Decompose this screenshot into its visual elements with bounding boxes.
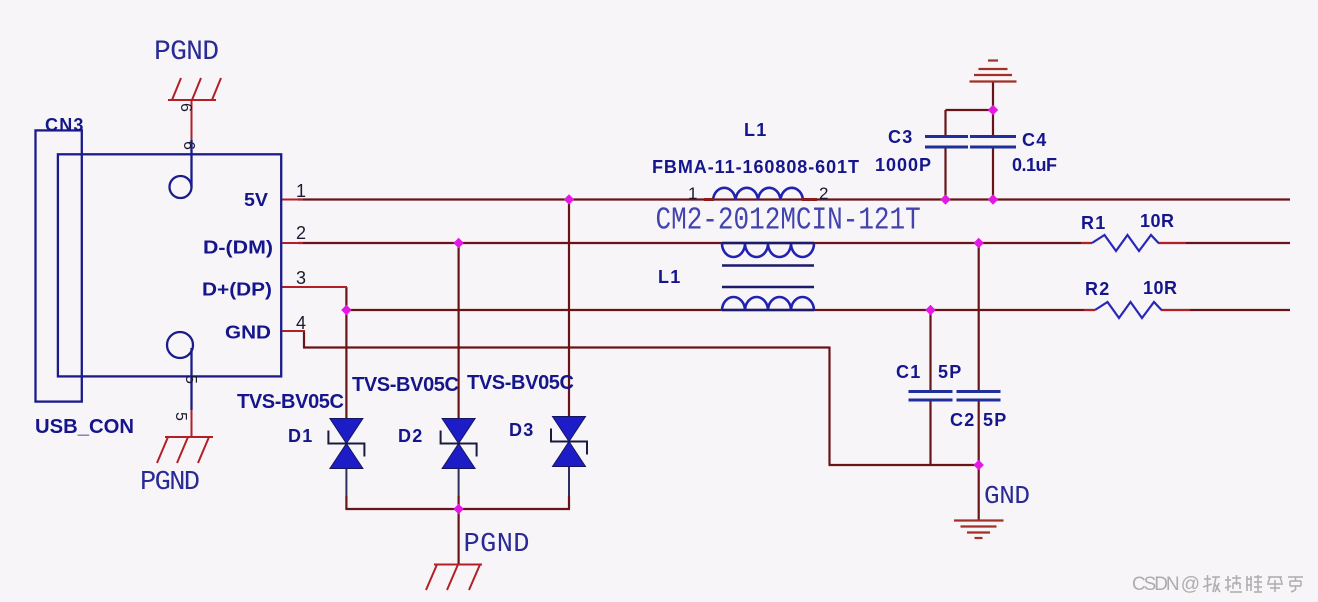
svg-text:1: 1 xyxy=(688,184,697,203)
svg-text:4: 4 xyxy=(296,313,306,333)
svg-text:D+(DP): D+(DP) xyxy=(202,280,272,300)
svg-text:C3: C3 xyxy=(888,127,913,147)
svg-text:6: 6 xyxy=(177,103,194,112)
svg-text:0.1uF: 0.1uF xyxy=(1012,155,1057,175)
svg-text:PGND: PGND xyxy=(154,37,219,68)
svg-text:TVS-BV05C: TVS-BV05C xyxy=(467,372,574,394)
svg-text:PGND: PGND xyxy=(140,468,200,498)
svg-text:1000P: 1000P xyxy=(875,155,931,175)
svg-text:5: 5 xyxy=(182,375,199,384)
svg-text:D-(DM): D-(DM) xyxy=(203,238,273,258)
svg-text:5V: 5V xyxy=(244,190,268,210)
svg-text:USB_CON: USB_CON xyxy=(35,416,134,438)
svg-text:GND: GND xyxy=(225,323,271,343)
svg-text:2: 2 xyxy=(819,184,828,203)
svg-text:C1: C1 xyxy=(896,362,921,382)
svg-text:R1: R1 xyxy=(1081,213,1106,233)
svg-text:CM2-2012MCIN-121T: CM2-2012MCIN-121T xyxy=(656,202,921,238)
svg-text:CSDN @: CSDN @ xyxy=(1132,574,1200,595)
svg-text:6: 6 xyxy=(180,141,197,150)
svg-text:10R: 10R xyxy=(1140,211,1174,231)
svg-text:2: 2 xyxy=(296,223,306,243)
svg-text:FBMA-11-160808-601T: FBMA-11-160808-601T xyxy=(652,157,859,177)
svg-text:C4: C4 xyxy=(1022,130,1047,150)
svg-text:D3: D3 xyxy=(509,420,534,440)
svg-text:L1: L1 xyxy=(744,120,767,140)
svg-text:10R: 10R xyxy=(1143,278,1177,298)
svg-text:5P: 5P xyxy=(938,362,962,382)
svg-text:TVS-BV05C: TVS-BV05C xyxy=(237,391,344,413)
svg-text:1: 1 xyxy=(296,181,306,201)
svg-text:R2: R2 xyxy=(1085,279,1110,299)
svg-text:GND: GND xyxy=(984,481,1030,511)
svg-text:5: 5 xyxy=(172,412,189,421)
svg-text:L1: L1 xyxy=(658,267,681,287)
svg-text:5P: 5P xyxy=(983,410,1007,430)
svg-text:D2: D2 xyxy=(398,426,423,446)
svg-text:3: 3 xyxy=(296,268,306,288)
svg-text:C2: C2 xyxy=(950,410,975,430)
svg-text:CN3: CN3 xyxy=(45,115,85,135)
svg-text:TVS-BV05C: TVS-BV05C xyxy=(352,374,459,396)
svg-text:PGND: PGND xyxy=(464,530,530,560)
svg-text:D1: D1 xyxy=(288,426,313,446)
